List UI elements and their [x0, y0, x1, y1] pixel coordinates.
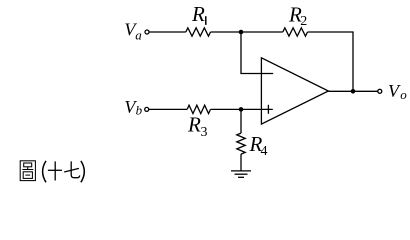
- node A junction dot: [239, 30, 244, 35]
- svg-text:4: 4: [261, 144, 268, 159]
- resistor R1: [186, 28, 211, 36]
- caption open paren: [43, 161, 46, 182]
- svg-text:R: R: [187, 113, 201, 137]
- svg-text:3: 3: [201, 125, 208, 140]
- svg-text:2: 2: [300, 14, 307, 29]
- wire R3 to node B: [211, 108, 242, 110]
- label R2: [288, 3, 307, 29]
- resistor R2: [283, 28, 308, 36]
- label Vb: [124, 97, 142, 117]
- svg-text:R: R: [191, 2, 205, 26]
- wire feedback node A down to inverting input: [241, 32, 273, 74]
- wire R1 to node A: [211, 31, 242, 33]
- wire R4 to ground: [240, 154, 242, 171]
- svg-text:V: V: [388, 81, 401, 101]
- op-amp U1 plus sign vertical bar: [267, 105, 269, 114]
- label R1: [191, 2, 206, 26]
- resistor R4: [237, 133, 245, 154]
- label Va: [124, 20, 142, 43]
- caption close paren: [81, 161, 84, 182]
- caption glyph seven: [64, 161, 80, 177]
- node B junction dot: [239, 107, 244, 112]
- wire Vb to R3: [149, 108, 187, 110]
- svg-text:a: a: [135, 28, 142, 43]
- wire node B to noninverting input: [241, 108, 273, 110]
- terminal Vb: [145, 107, 149, 111]
- caption glyph tu (figure): [20, 161, 35, 181]
- wire op-amp output to terminal Vo: [328, 90, 377, 92]
- terminal Vo: [378, 89, 382, 93]
- op-amp U1: [261, 58, 328, 124]
- svg-text:o: o: [400, 87, 407, 102]
- caption figure seventeen: [20, 161, 84, 183]
- label Vo: [388, 81, 407, 102]
- ground: [231, 171, 251, 177]
- node output junction dot: [351, 89, 356, 94]
- caption glyph ten: [48, 161, 62, 180]
- label R4: [249, 132, 268, 159]
- wire R2 to top-right corner: [308, 32, 354, 91]
- svg-text:b: b: [136, 102, 143, 117]
- terminal Va: [145, 30, 149, 34]
- wire node B down to R4: [240, 109, 242, 133]
- label R3: [187, 113, 208, 140]
- wire node A to R2: [241, 31, 283, 33]
- resistor R3: [187, 105, 210, 113]
- wire Va to R1: [149, 31, 186, 33]
